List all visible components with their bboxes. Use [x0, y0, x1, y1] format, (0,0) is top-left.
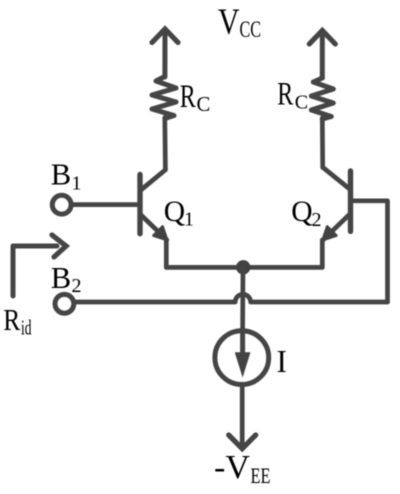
wire: current source to -VEE	[240, 385, 245, 446]
Rid indicator arrow	[13, 235, 66, 296]
svg-text:B: B	[51, 261, 71, 295]
wire: B1 base	[72, 202, 138, 207]
svg-text:Q: Q	[291, 196, 312, 228]
current source I	[215, 331, 269, 385]
wire: hop to right riser	[251, 300, 388, 305]
wire: tail down to current source	[240, 267, 245, 332]
svg-text:I: I	[277, 344, 287, 379]
svg-text:Q: Q	[164, 196, 185, 228]
power arrow -VEE	[229, 435, 256, 449]
terminal B1	[52, 195, 71, 214]
svg-text:C: C	[197, 94, 211, 116]
svg-text:2: 2	[312, 209, 322, 231]
transistor Q2	[323, 168, 351, 241]
wire hop over tail	[235, 294, 250, 302]
transistor Q1	[140, 170, 167, 240]
svg-text:R: R	[3, 303, 20, 337]
power arrow VCC left	[152, 29, 178, 77]
svg-text:V: V	[218, 2, 240, 43]
svg-text:C: C	[295, 92, 308, 114]
wire: Q1 emitter drop	[164, 240, 169, 267]
svg-text:CC: CC	[240, 17, 262, 42]
wire: B2 to hop	[75, 300, 235, 305]
terminal B2	[55, 294, 74, 313]
svg-text:id: id	[21, 316, 32, 340]
svg-text:R: R	[277, 77, 293, 113]
node: common emitter junction	[236, 260, 250, 274]
wire: right riser to Q2 base	[353, 201, 388, 302]
wire: emitter rail	[166, 265, 322, 270]
svg-text:2: 2	[72, 275, 82, 297]
svg-text:-V: -V	[214, 449, 250, 486]
resistor RC2 (right)	[311, 78, 333, 119]
svg-text:1: 1	[72, 173, 82, 195]
power arrow VCC right	[309, 31, 335, 79]
svg-text:R: R	[180, 79, 196, 115]
wire: Q2 emitter drop	[320, 240, 325, 267]
wire: left collector column lower	[162, 118, 167, 170]
resistor RC1 (left)	[152, 77, 176, 119]
wire: right collector column lower	[320, 118, 325, 168]
svg-text:B: B	[51, 158, 71, 192]
svg-text:1: 1	[184, 209, 194, 231]
svg-text:EE: EE	[251, 463, 271, 488]
